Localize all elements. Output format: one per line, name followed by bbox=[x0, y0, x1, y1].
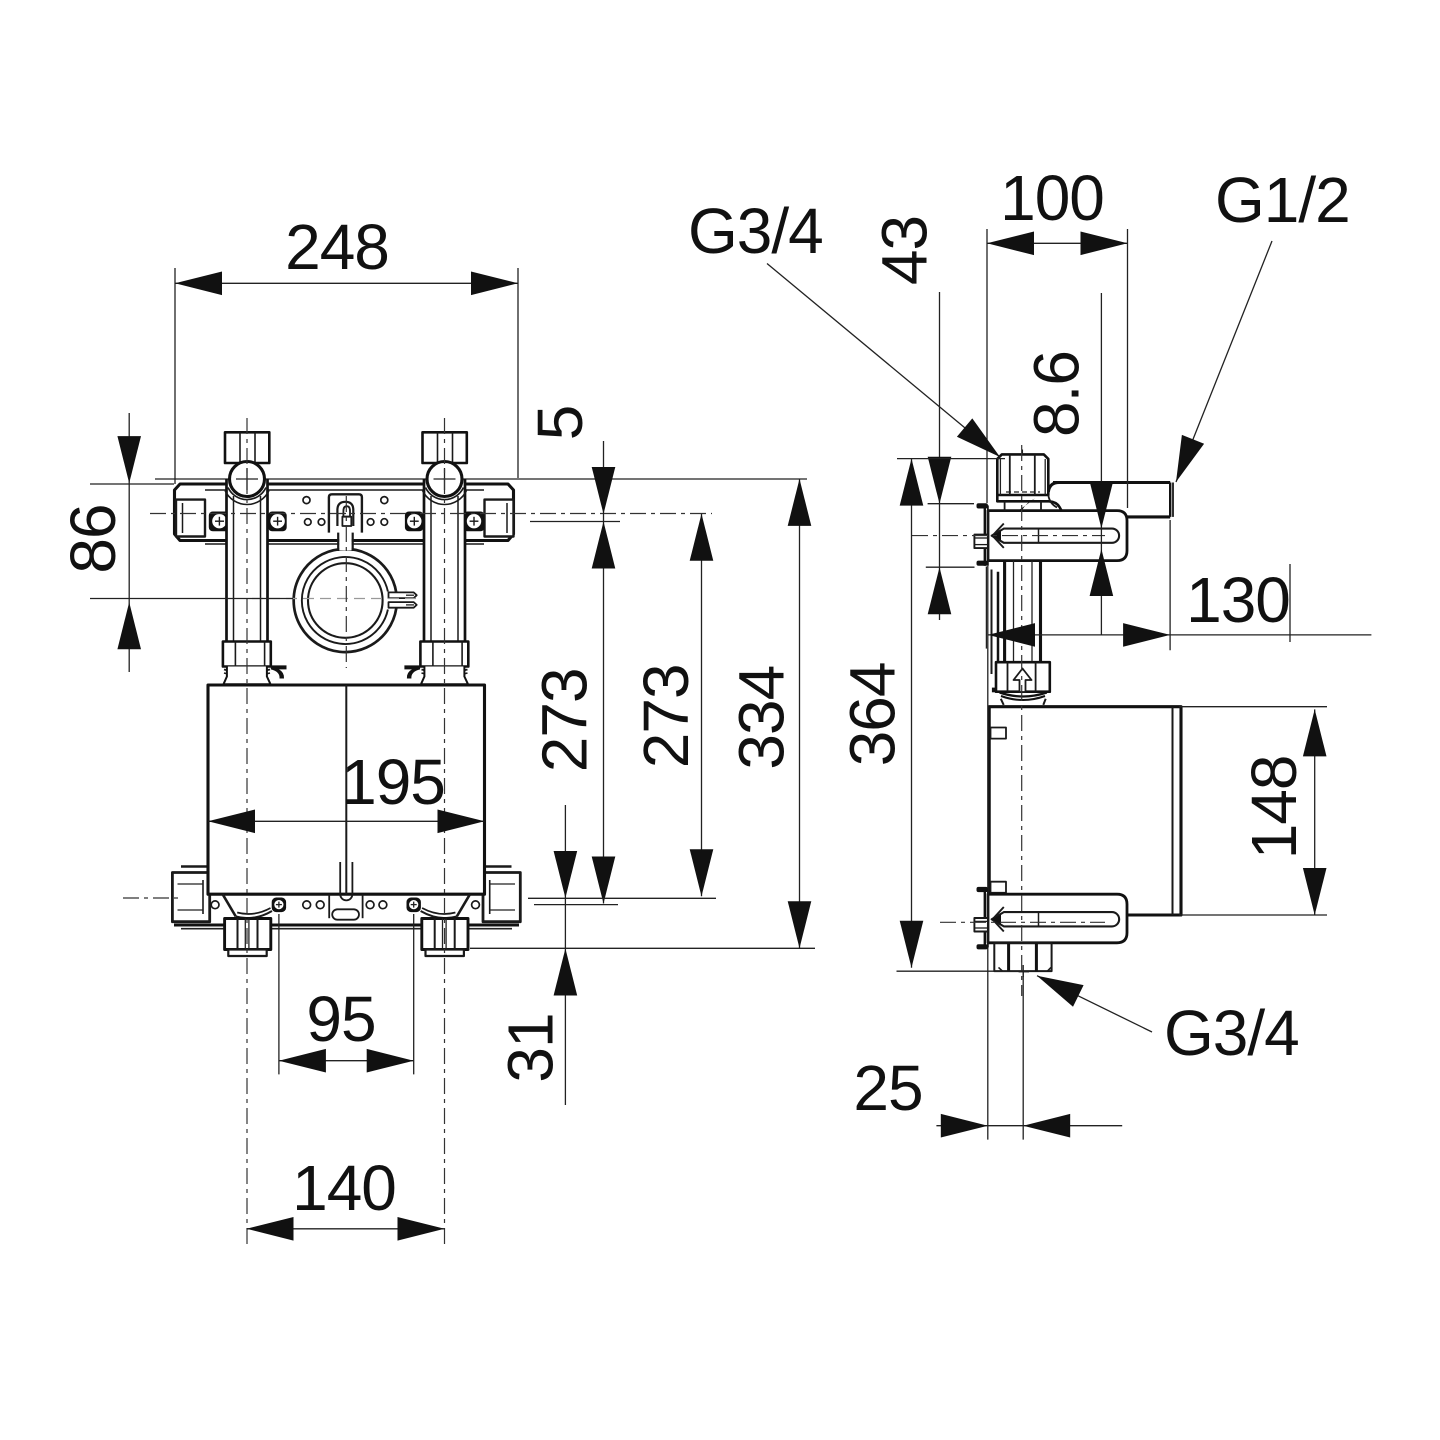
screw clamp S1 bbox=[209, 512, 230, 532]
right pipe centerline bbox=[444, 418, 446, 1245]
left pipe centerline bbox=[246, 418, 248, 1245]
side centerline vertical bbox=[1021, 445, 1023, 996]
check valve nut bbox=[996, 662, 1050, 692]
box notch upper bbox=[991, 728, 1007, 739]
dimension 140 bbox=[247, 1152, 445, 1241]
svg-text:G1/2: G1/2 bbox=[1215, 164, 1350, 236]
left inlet fitting bbox=[225, 432, 269, 463]
svg-text:G3/4: G3/4 bbox=[1164, 997, 1299, 1069]
upper mounting rail bbox=[175, 484, 514, 541]
svg-text:273: 273 bbox=[630, 664, 702, 768]
lower slot screw cone bbox=[993, 907, 1004, 932]
supply pipe side bbox=[1005, 561, 1041, 663]
lower rail hole row bbox=[211, 901, 219, 909]
dimension 273 second bbox=[528, 514, 716, 899]
wall plate upper bbox=[984, 505, 986, 565]
plate tab lower bbox=[977, 561, 988, 566]
box notch lower bbox=[991, 882, 1007, 893]
lower center bracket bbox=[328, 894, 330, 918]
lower center slot bbox=[332, 909, 359, 919]
right mounting wing bbox=[407, 894, 471, 918]
svg-text:5: 5 bbox=[524, 406, 596, 441]
node inlet axis line bbox=[155, 478, 807, 480]
svg-text:364: 364 bbox=[837, 663, 909, 767]
dimension 100 bbox=[987, 162, 1128, 508]
svg-text:100: 100 bbox=[1000, 162, 1104, 234]
SIDE VIEW bbox=[912, 445, 1181, 1140]
node rail top reference line bbox=[90, 483, 174, 485]
svg-text:334: 334 bbox=[726, 666, 798, 770]
clamp prong lower bbox=[389, 602, 417, 608]
svg-text:8.6: 8.6 bbox=[1021, 351, 1093, 437]
dimension 195 bbox=[208, 746, 485, 833]
rail centerline horizontal bbox=[150, 513, 712, 515]
lower rail bottom edge bbox=[174, 923, 519, 926]
left union hook bbox=[271, 665, 287, 678]
wall plate lower bbox=[984, 890, 986, 947]
lower rail screw bbox=[974, 918, 988, 932]
rail fixing screw bbox=[974, 535, 988, 549]
svg-text:95: 95 bbox=[306, 983, 375, 1055]
rail slot centerline bbox=[912, 535, 1105, 537]
right inlet fitting bbox=[423, 432, 467, 463]
right union washer bbox=[422, 670, 468, 673]
lower rail side section bbox=[940, 887, 1127, 950]
dimension 248 bbox=[175, 211, 518, 484]
left ball joint bbox=[225, 462, 269, 505]
svg-text:130: 130 bbox=[1186, 564, 1290, 636]
right outlet nut bbox=[422, 919, 468, 957]
dimension 43 bbox=[869, 216, 975, 620]
svg-text:43: 43 bbox=[869, 216, 941, 285]
inlet neck bbox=[997, 495, 1061, 511]
right supply pipe bbox=[424, 479, 465, 642]
label G3/4 bottom bbox=[1037, 976, 1299, 1069]
dimension 148 bbox=[1179, 707, 1327, 915]
flow direction arrow bbox=[1014, 669, 1032, 693]
left mounting wing bbox=[223, 894, 287, 918]
G1/2 outlet pipe bbox=[1048, 483, 1173, 517]
DIMENSIONS bbox=[57, 162, 1371, 1241]
svg-text:195: 195 bbox=[341, 746, 445, 818]
dimension 8.6 bbox=[1021, 293, 1114, 635]
lower slot bbox=[992, 912, 1119, 926]
keyhole insert bbox=[343, 506, 350, 517]
dimension 130 bbox=[988, 520, 1371, 650]
valve body box bbox=[208, 685, 485, 894]
svg-text:31: 31 bbox=[495, 1013, 567, 1082]
screw clamp S2 bbox=[268, 512, 287, 532]
svg-text:G3/4: G3/4 bbox=[688, 195, 823, 267]
G3/4 inlet nut bbox=[997, 450, 1048, 496]
dimension 364 bbox=[837, 459, 1031, 972]
left union washer bbox=[224, 670, 270, 673]
plate tab upper2 bbox=[977, 887, 988, 892]
lower rail left end cap bbox=[172, 867, 209, 922]
dimension 25 bbox=[853, 971, 1122, 1139]
svg-text:25: 25 bbox=[853, 1052, 922, 1124]
lower rail right end cap bbox=[483, 867, 520, 922]
valve body box side bbox=[989, 707, 1181, 915]
slot screw cone bbox=[993, 524, 1004, 548]
lower rail centerline bbox=[123, 897, 180, 899]
dimension 334 bbox=[470, 479, 815, 948]
upper rail right end cap bbox=[485, 500, 514, 537]
right union nut bbox=[404, 642, 468, 685]
plate tab lower2 bbox=[977, 944, 988, 949]
plate tab upper bbox=[977, 503, 988, 508]
G3/4 outlet stub bbox=[994, 943, 1051, 977]
plate column lines bbox=[986, 567, 998, 693]
label G3/4 top bbox=[688, 195, 1000, 457]
screw clamp S3 bbox=[405, 512, 424, 532]
left union skirt bbox=[224, 667, 271, 685]
svg-text:248: 248 bbox=[285, 211, 389, 283]
right ball joint bbox=[423, 462, 467, 505]
check valve skirt bbox=[1001, 699, 1046, 705]
right union hook bbox=[404, 665, 420, 678]
svg-text:148: 148 bbox=[1238, 756, 1310, 860]
left supply pipe bbox=[227, 479, 268, 642]
rail hole row bbox=[303, 497, 310, 504]
left outlet nut bbox=[225, 919, 271, 957]
svg-text:273: 273 bbox=[528, 668, 600, 772]
dimension 273 first bbox=[528, 668, 618, 904]
dimension 31 bbox=[495, 805, 578, 1105]
dimension 5 bbox=[524, 406, 620, 904]
right union skirt bbox=[421, 667, 468, 685]
center bracket bbox=[329, 494, 362, 532]
upper rail side section bbox=[912, 503, 1127, 566]
clamp centerline horizontal bbox=[252, 598, 420, 600]
clamp centerline vertical bbox=[345, 496, 347, 668]
lower slot centerline bbox=[940, 921, 1105, 923]
label G1/2 bbox=[1176, 164, 1350, 482]
rail slot bbox=[992, 529, 1119, 543]
svg-text:140: 140 bbox=[292, 1152, 396, 1224]
svg-text:86: 86 bbox=[57, 504, 129, 573]
upper rail left end cap bbox=[176, 500, 205, 537]
screw clamp S4 bbox=[463, 512, 484, 532]
dimension 86 bbox=[57, 413, 293, 672]
FRONT VIEW bbox=[90, 418, 807, 1245]
clamp stem bbox=[338, 533, 353, 551]
drain stub bbox=[340, 862, 352, 900]
dimension 95 bbox=[279, 914, 414, 1074]
check valve collar bbox=[1000, 693, 1047, 705]
wall plate line extended bbox=[987, 566, 989, 1140]
left union nut bbox=[223, 642, 287, 685]
clamp prong upper bbox=[389, 592, 417, 598]
pipe clamp ring bbox=[294, 549, 417, 652]
